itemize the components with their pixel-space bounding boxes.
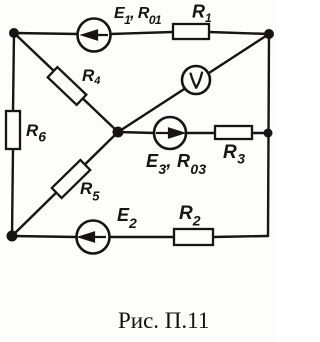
svg-text:R6: R6: [26, 121, 46, 145]
svg-text:R1: R1: [192, 2, 212, 26]
svg-text:E3, R03: E3, R03: [146, 151, 207, 177]
svg-text:R4: R4: [82, 66, 100, 87]
svg-text:R2: R2: [179, 203, 201, 229]
svg-text:E2: E2: [117, 205, 137, 231]
svg-text:E1, R01: E1, R01: [114, 5, 162, 27]
svg-text:R5: R5: [80, 179, 100, 204]
svg-text:R3: R3: [223, 142, 246, 167]
